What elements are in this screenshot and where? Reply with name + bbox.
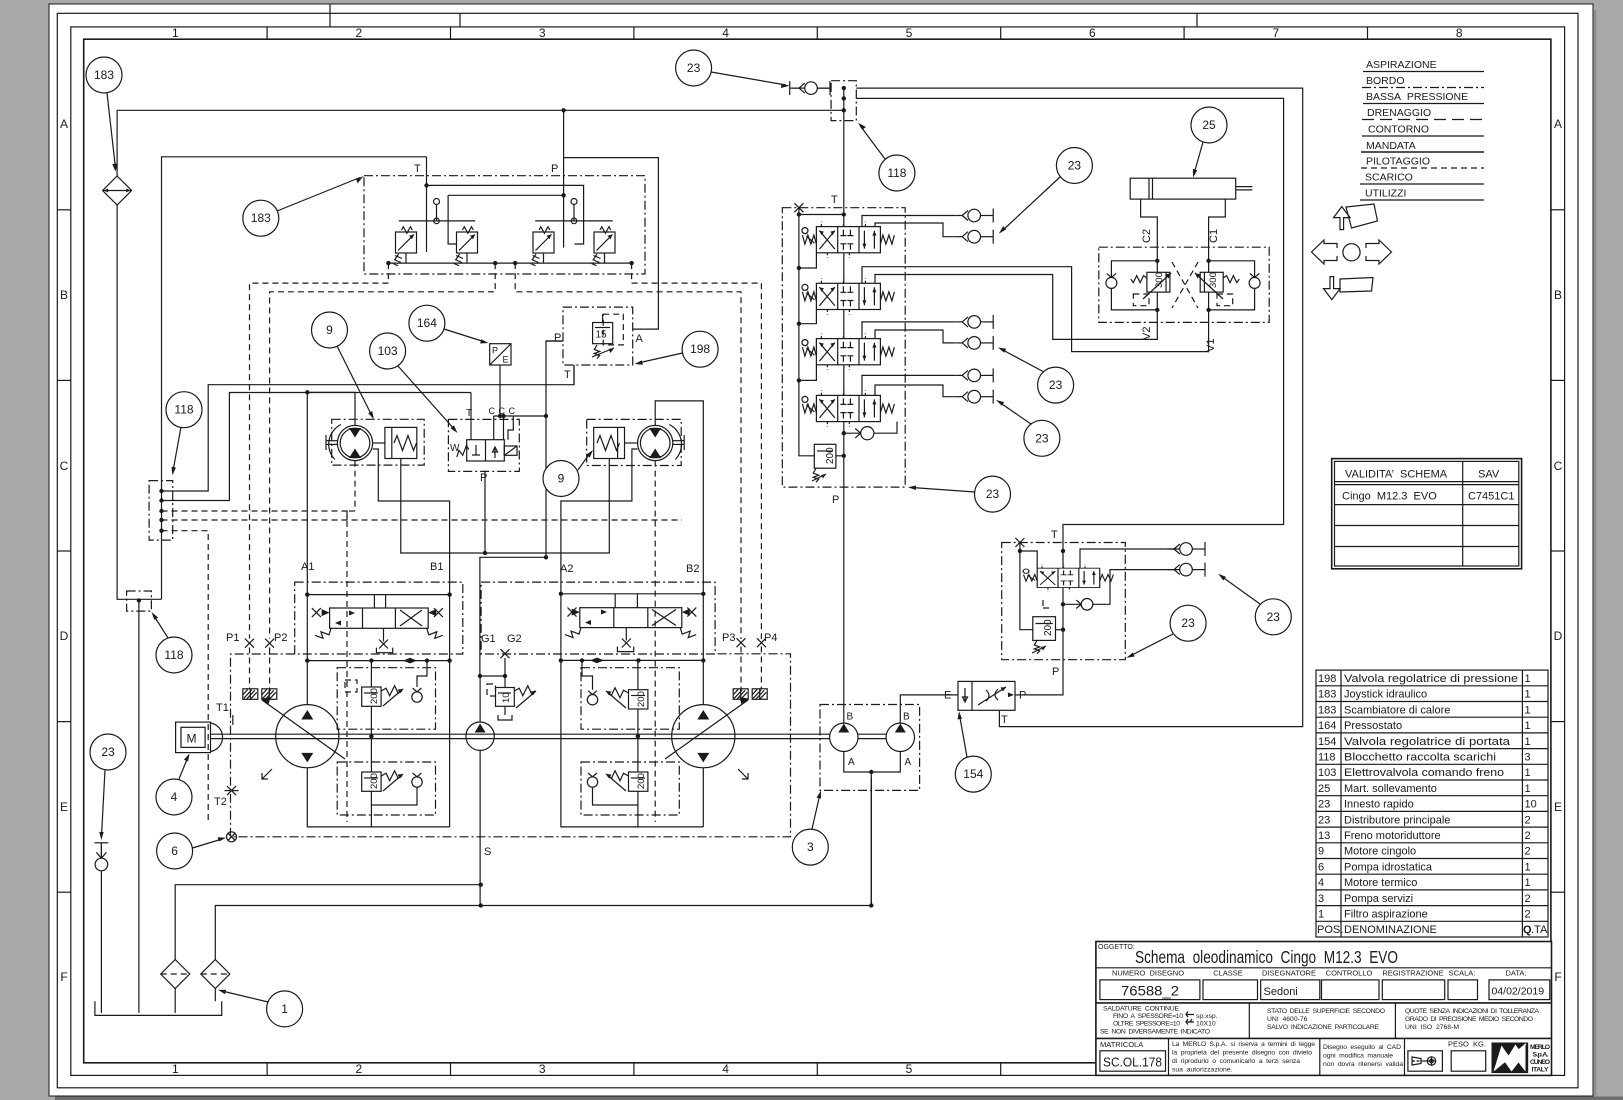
electrovalve 103 — [450, 440, 517, 461]
svg-text:OLTRE SPESSORE=10: OLTRE SPESSORE=10 — [1113, 1021, 1180, 1028]
wire 15 A to pilot riser — [564, 158, 659, 330]
icon down arrow with tool — [1324, 277, 1374, 300]
P1 actuator — [243, 689, 258, 700]
swash bracket 2 — [738, 769, 748, 779]
weld symbols in saldature cell — [1186, 1012, 1194, 1018]
svg-text:1: 1 — [1525, 736, 1531, 748]
balloon 23 top coupler — [676, 50, 790, 88]
balloon 6 hydrostatic — [157, 833, 226, 869]
svg-text:Schema oleodinamico Cingo M: Schema oleodinamico Cingo M12.3 EVO — [1135, 947, 1398, 967]
flow regulator 154 — [944, 681, 1026, 726]
pilot line to P2 — [270, 263, 496, 638]
svg-text:1: 1 — [1525, 783, 1531, 795]
wire A1 drop — [306, 595, 308, 705]
title block outer — [1096, 942, 1552, 1076]
left ruler ticks — [57, 210, 71, 892]
balloon 118 top block — [858, 123, 915, 191]
svg-text:B1: B1 — [430, 561, 443, 573]
balloon 25 cylinder — [1191, 107, 1227, 178]
svg-text:sua autorizzazione.: sua autorizzazione. — [1172, 1067, 1233, 1074]
distributor valve 3 — [802, 334, 894, 370]
svg-text:A: A — [905, 757, 912, 768]
aux relief 200 — [1032, 600, 1063, 654]
wire 103 T — [470, 393, 472, 440]
svg-text:10X10: 10X10 — [1196, 1021, 1216, 1028]
pilot valve 1 — [393, 227, 417, 266]
svg-text:200: 200 — [636, 773, 647, 789]
svg-text:10: 10 — [1525, 799, 1537, 811]
main relief valve — [812, 444, 836, 482]
svg-text:PILOTAGGIO: PILOTAGGIO — [1366, 156, 1430, 168]
svg-text:P: P — [551, 163, 558, 175]
balloon 4 engine — [156, 754, 192, 816]
svg-text:103: 103 — [1318, 767, 1336, 779]
counterbalance valve left 300 — [1131, 272, 1171, 306]
right track motor 9 — [638, 425, 673, 460]
relief cluster 2 upper — [580, 658, 680, 736]
svg-text:W: W — [450, 443, 460, 454]
pilot line to P3 — [515, 263, 741, 639]
svg-text:STATO DELLE SUPERFICIE SECO: STATO DELLE SUPERFICIE SECONDO — [1267, 1008, 1385, 1015]
svg-text:DENOMINAZIONE: DENOMINAZIONE — [1344, 924, 1437, 936]
svg-text:Freno motoriduttore: Freno motoriduttore — [1344, 830, 1441, 842]
services suction riser — [870, 778, 872, 906]
top fold mark — [329, 4, 331, 27]
svg-text:23: 23 — [101, 745, 115, 759]
suction filter 1 — [161, 960, 190, 989]
coupler 1A — [955, 209, 993, 223]
svg-text:1: 1 — [1525, 673, 1531, 685]
svg-text:10: 10 — [501, 692, 512, 703]
svg-text:UTILIZZI: UTILIZZI — [1365, 188, 1406, 200]
wire cooler return line y=110 — [117, 109, 844, 111]
svg-text:C: C — [60, 459, 69, 473]
svg-text:CONTROLLO: CONTROLLO — [1326, 969, 1373, 978]
svg-text:P2: P2 — [274, 632, 287, 644]
wire joystick T — [426, 157, 428, 252]
svg-text:1: 1 — [172, 26, 179, 40]
quick coupler — [95, 843, 108, 871]
svg-text:MANDATA: MANDATA — [1366, 140, 1416, 152]
aux coupler 2 — [1167, 563, 1205, 577]
pilot valve 4 — [592, 227, 616, 266]
svg-text:23: 23 — [1035, 431, 1049, 445]
svg-text:118: 118 — [164, 648, 183, 662]
balloon 183 heat exchanger — [86, 57, 122, 172]
distributor valve 4 — [802, 390, 894, 426]
svg-text:2: 2 — [355, 1062, 362, 1076]
P3 pilot port — [737, 638, 746, 647]
svg-text:M: M — [187, 732, 197, 746]
wire B2 drop — [702, 594, 704, 705]
wire aux left gallery — [1020, 543, 1033, 630]
utility coupler line left — [95, 842, 109, 844]
relief cluster 1 upper — [337, 658, 435, 736]
svg-text:1: 1 — [1525, 720, 1531, 732]
balloon 118 collector — [166, 392, 202, 476]
svg-text:C: C — [1554, 459, 1563, 473]
svg-text:9: 9 — [1318, 846, 1324, 858]
svg-text:P1: P1 — [226, 632, 239, 644]
header labels — [1112, 969, 1527, 978]
svg-text:P: P — [554, 332, 561, 344]
left brake — [385, 427, 417, 458]
pump control valve 1 — [312, 608, 443, 638]
wire cylinder port C1 — [1209, 199, 1226, 247]
svg-text:Pompa idrostatica: Pompa idrostatica — [1344, 861, 1433, 873]
wire aux coupler top — [1080, 549, 1180, 568]
svg-text:4: 4 — [1318, 877, 1324, 889]
svg-text:25: 25 — [1318, 783, 1330, 795]
svg-text:154: 154 — [963, 767, 983, 781]
aux check valve — [1063, 603, 1080, 605]
svg-text:23: 23 — [1267, 610, 1281, 624]
svg-text:MATRICOLA: MATRICOLA — [1100, 1040, 1143, 1049]
svg-text:13: 13 — [1318, 830, 1330, 842]
work port lines valve2 to cylinder — [862, 267, 1209, 352]
tank — [95, 1001, 222, 1015]
pump control valve 2 — [565, 608, 696, 638]
wire C1 inside — [1208, 247, 1210, 272]
svg-text:SALVO INDICAZIONE PARTICOLAR: SALVO INDICAZIONE PARTICOLARE — [1267, 1024, 1379, 1031]
svg-text:P3: P3 — [722, 632, 735, 644]
joystick box 183 — [364, 176, 645, 274]
bypass block 118 — [127, 591, 152, 611]
wire B2 to motor — [655, 401, 703, 594]
svg-text:300: 300 — [1208, 272, 1219, 288]
svg-text:23: 23 — [986, 487, 1000, 501]
bottom row — [1168, 1038, 1170, 1075]
svg-text:P: P — [492, 346, 498, 356]
boost pump — [466, 722, 494, 750]
balloon 1 filter — [218, 990, 303, 1027]
svg-text:164: 164 — [417, 316, 437, 330]
right ruler letters — [1554, 117, 1563, 984]
balloon 23 distributor — [908, 476, 1011, 512]
svg-text:198: 198 — [690, 342, 710, 356]
pilot valve 3 — [531, 227, 555, 266]
svg-text:B: B — [60, 288, 68, 302]
svg-text:9: 9 — [558, 472, 565, 486]
hydrostatic pump 1 — [276, 705, 339, 768]
relief cluster 1 lower — [337, 734, 435, 827]
svg-text:2: 2 — [355, 26, 362, 40]
right ruler ticks — [1551, 210, 1565, 892]
left motor case drain — [354, 461, 356, 511]
svg-text:183: 183 — [1318, 689, 1336, 701]
pilot drops P1 P2 — [249, 648, 251, 689]
wire joystick outputs — [388, 253, 631, 263]
svg-text:A: A — [60, 117, 68, 131]
svg-text:F: F — [1554, 970, 1561, 984]
svg-text:A2: A2 — [560, 563, 573, 575]
coupler 4B — [955, 390, 993, 404]
svg-text:1: 1 — [1525, 704, 1531, 716]
svg-text:2: 2 — [1525, 909, 1531, 921]
wire pump1 gallery — [307, 660, 449, 662]
svg-text:CONTORNO: CONTORNO — [1368, 124, 1429, 136]
wire pressostato tap — [499, 365, 501, 416]
balloon 3 services pump — [792, 791, 828, 866]
svg-text:8: 8 — [1456, 26, 1463, 40]
svg-text:SCARICO: SCARICO — [1365, 172, 1413, 184]
wire joystick P — [563, 110, 565, 247]
check valve to right gallery — [844, 432, 861, 434]
balloon 23 left coupler — [90, 734, 126, 840]
wire boost suction S — [479, 750, 481, 905]
svg-text:Cingo M12.3 EVO: Cingo M12.3 EVO — [1342, 491, 1437, 503]
svg-text:F: F — [60, 970, 67, 984]
svg-text:118: 118 — [174, 403, 193, 417]
wire boost pressure riser — [479, 676, 481, 722]
svg-text:T2: T2 — [214, 796, 227, 808]
balloon 23 coupler v4 — [996, 400, 1060, 456]
svg-text:Valvola regolatrice di portata: Valvola regolatrice di portata — [1344, 736, 1511, 748]
svg-text:103: 103 — [378, 344, 398, 358]
svg-text:ogni modifica manuale: ogni modifica manuale — [1323, 1053, 1393, 1060]
svg-text:5: 5 — [906, 1062, 913, 1076]
svg-text:3: 3 — [1525, 752, 1531, 764]
svg-text:23: 23 — [1049, 378, 1063, 392]
svg-text:DRENAGGIO: DRENAGGIO — [1367, 107, 1431, 119]
wire valve2 top links — [614, 594, 616, 608]
svg-text:BORDO: BORDO — [1366, 75, 1405, 87]
drain block internal line — [843, 88, 845, 121]
bottom ruler ticks — [267, 1063, 1001, 1076]
svg-text:C: C — [509, 406, 516, 416]
drain block 118 top — [831, 81, 856, 121]
svg-text:SCALA:: SCALA: — [1449, 969, 1476, 978]
svg-text:B: B — [1554, 288, 1562, 302]
svg-text:1: 1 — [1525, 861, 1531, 873]
wire aux valve to P — [1015, 588, 1063, 695]
main distributor box 23 — [782, 208, 905, 487]
svg-text:G2: G2 — [507, 633, 522, 645]
boost relief 10 — [487, 684, 536, 720]
svg-text:6: 6 — [171, 844, 178, 858]
pilot cross lines — [1172, 262, 1198, 308]
svg-text:1: 1 — [281, 1002, 288, 1016]
work port lines valve3 — [862, 322, 955, 339]
electrovalve 103 box — [448, 419, 519, 471]
icon up arrow with tool — [1334, 204, 1378, 230]
right motor case drain — [654, 461, 656, 822]
svg-text:FINO A SPESSORE=10: FINO A SPESSORE=10 — [1113, 1013, 1183, 1020]
P2 pilot port — [265, 639, 274, 648]
svg-text:Valvola regolatrice di pressio: Valvola regolatrice di pressione — [1344, 673, 1518, 685]
gear pump left — [830, 723, 858, 751]
svg-text:Scambiatore di calore: Scambiatore di calore — [1344, 704, 1450, 716]
aux distributor box 23 — [1002, 543, 1126, 660]
coupler 1B — [955, 230, 993, 244]
top ruler numbers — [172, 26, 1463, 40]
pilot supply riser — [546, 341, 563, 416]
wire 15 T — [573, 365, 575, 385]
svg-text:5: 5 — [906, 26, 913, 40]
svg-text:23: 23 — [1068, 159, 1082, 173]
left motor shaft — [326, 440, 337, 442]
svg-text:.TA: .TA — [1531, 924, 1548, 936]
wire valve1 top links — [373, 595, 375, 608]
svg-text:SE NON DIVERSAMENTE INDICAT: SE NON DIVERSAMENTE INDICATO — [1100, 1029, 1210, 1036]
drive shaft double line — [211, 733, 830, 735]
svg-text:T: T — [831, 194, 838, 206]
balloon 118 bypass — [152, 612, 193, 673]
svg-text:UNI 4600-76: UNI 4600-76 — [1267, 1016, 1308, 1023]
suction filter 2 pipes — [214, 989, 216, 1002]
junction dot — [137, 598, 141, 602]
svg-text:23: 23 — [687, 61, 701, 75]
svg-text:2: 2 — [1525, 846, 1531, 858]
collector junction dots — [159, 489, 163, 533]
svg-text:Mart. sollevamento: Mart. sollevamento — [1344, 783, 1437, 795]
svg-text:Pompa servizi: Pompa servizi — [1344, 893, 1413, 905]
counterbalance block — [1099, 247, 1269, 322]
svg-text:QUOTE SENZA INDICAZIONI DI: QUOTE SENZA INDICAZIONI DI TOLLERANZA — [1405, 1008, 1539, 1015]
right motor shaft — [673, 440, 684, 442]
coupler 4A — [955, 368, 993, 382]
svg-text:Filtro aspirazione: Filtro aspirazione — [1344, 909, 1428, 921]
svg-text:15: 15 — [596, 330, 608, 341]
P1 pilot port — [245, 639, 254, 648]
wire big loop left — [162, 157, 427, 600]
svg-text:76588_2: 76588_2 — [1121, 984, 1179, 999]
P4 pilot port — [757, 638, 766, 647]
wire 15 P — [546, 340, 563, 342]
svg-text:T: T — [414, 163, 421, 175]
P2 actuator — [262, 689, 277, 700]
drain collector block 118 — [149, 481, 173, 540]
G2 test point — [501, 649, 510, 658]
valve2 drain — [625, 628, 627, 641]
svg-text:A1: A1 — [301, 561, 314, 573]
pilot line to P4 — [632, 263, 762, 639]
wire distributor T gallery — [843, 121, 845, 227]
parts list table — [1316, 670, 1548, 937]
svg-text:V1: V1 — [1205, 339, 1217, 352]
svg-text:T: T — [564, 369, 571, 381]
engine coupling arc — [211, 723, 223, 751]
svg-text:7: 7 — [1272, 26, 1279, 40]
MERLO logo — [1492, 1043, 1529, 1074]
svg-text:BASSA PRESSIONE: BASSA PRESSIONE — [1366, 91, 1468, 103]
middle row cells — [1248, 1003, 1250, 1039]
balloon 9 right motor — [543, 450, 593, 497]
work port lines valve1 — [862, 216, 955, 227]
plugged port X — [794, 203, 803, 212]
wire left gallery — [799, 208, 814, 456]
svg-text:PESO KG.: PESO KG. — [1448, 1040, 1486, 1049]
svg-text:T1: T1 — [216, 702, 229, 714]
value boxes — [1100, 980, 1550, 1000]
svg-text:1: 1 — [1525, 689, 1531, 701]
svg-text:P: P — [480, 472, 487, 484]
svg-text:D: D — [1554, 629, 1563, 643]
wire A1 to motor — [307, 392, 355, 594]
svg-text:Innesto rapido: Innesto rapido — [1344, 799, 1414, 811]
svg-text:P: P — [832, 494, 839, 506]
svg-text:Elettrovalvola comando freno: Elettrovalvola comando freno — [1344, 767, 1504, 779]
left ruler letters — [60, 117, 69, 984]
wire drain 1 to collector — [162, 365, 575, 491]
svg-text:2: 2 — [1525, 830, 1531, 842]
counterbalance valve right 300 — [1195, 272, 1239, 306]
svg-text:118: 118 — [1318, 752, 1336, 764]
svg-text:A: A — [848, 757, 855, 768]
lever left pair — [399, 199, 476, 224]
heat exchanger 183 — [103, 176, 132, 205]
wire tank drop — [138, 600, 140, 1013]
wire B1 to motor — [373, 449, 450, 595]
svg-text:ASPIRAZIONE: ASPIRAZIONE — [1366, 59, 1437, 71]
wire A2 to motor — [561, 449, 638, 594]
relief cluster 2 lower — [581, 734, 679, 827]
svg-text:Motore termico: Motore termico — [1344, 877, 1417, 889]
svg-text:2: 2 — [1525, 814, 1531, 826]
sheet shadow bottom — [55, 1097, 1623, 1100]
pilot line to P1 — [250, 263, 389, 638]
brake pilot line — [401, 459, 610, 554]
svg-text:SALDATURE CONTINUE: SALDATURE CONTINUE — [1103, 1006, 1179, 1013]
svg-text:1: 1 — [1525, 767, 1531, 779]
svg-text:183: 183 — [94, 68, 114, 82]
left motor unit box — [332, 419, 425, 465]
svg-text:P: P — [1052, 666, 1059, 678]
svg-text:Blocchetto raccolta scarichi: Blocchetto raccolta scarichi — [1344, 752, 1496, 764]
svg-text:P4: P4 — [764, 632, 777, 644]
wire 103 C ports — [493, 416, 495, 440]
svg-text:VALIDITA’ SCHEMA: VALIDITA’ SCHEMA — [1345, 469, 1448, 481]
distributor valve 1 — [802, 222, 894, 258]
svg-text:C2: C2 — [1141, 229, 1153, 243]
projection symbol box — [1408, 1051, 1443, 1071]
svg-text:183: 183 — [1318, 704, 1336, 716]
svg-text:S.p.A.: S.p.A. — [1533, 1052, 1549, 1059]
balloon 103 electrovalve — [370, 333, 458, 433]
svg-text:23: 23 — [1318, 814, 1330, 826]
svg-text:B: B — [847, 712, 854, 723]
engine M box — [176, 722, 211, 753]
svg-text:3: 3 — [539, 1062, 546, 1076]
wire B1 drop — [449, 595, 451, 827]
svg-text:T: T — [1001, 714, 1008, 726]
svg-text:OGGETTO:: OGGETTO: — [1098, 944, 1135, 951]
svg-text:E: E — [503, 355, 509, 365]
svg-text:200: 200 — [636, 691, 647, 707]
pump unit A1B1 box — [295, 582, 463, 654]
T2 plug — [227, 786, 236, 795]
wire A2 drop — [561, 594, 703, 827]
wire drain A top — [856, 88, 1302, 727]
svg-text:T: T — [1051, 529, 1058, 541]
svg-text:3: 3 — [539, 26, 546, 40]
swash bracket 1 — [262, 769, 272, 779]
pilot valve 2 — [454, 227, 478, 266]
balloon 23 coupler v3 — [998, 348, 1074, 404]
wire cooler drop — [116, 110, 118, 176]
svg-text:23: 23 — [1318, 799, 1330, 811]
svg-text:1: 1 — [1318, 909, 1324, 921]
wire joystick T branch — [427, 185, 584, 244]
svg-text:D: D — [60, 629, 69, 643]
S plug symbol — [227, 832, 237, 842]
svg-text:non dovra ritenersi valida: non dovra ritenersi valida — [1323, 1061, 1403, 1068]
svg-text:la proprieta del presente: la proprieta del presente disegno con di… — [1172, 1050, 1312, 1057]
svg-text:154: 154 — [1318, 736, 1336, 748]
svg-text:Motore cingolo: Motore cingolo — [1344, 846, 1416, 858]
balloon 183 joystick — [243, 176, 364, 236]
wire E to services pump — [900, 695, 958, 723]
